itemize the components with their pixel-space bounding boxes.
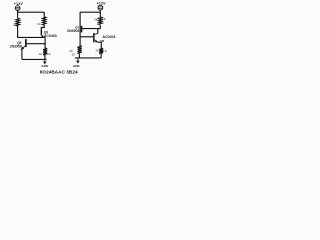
svg-text:1K: 1K — [72, 52, 77, 56]
wire node column to R3 — [44, 37, 46, 48]
wire Q8 emitter jog — [97, 42, 101, 48]
svg-text:2N3906: 2N3906 — [67, 29, 79, 33]
resistor R1 — [13, 18, 20, 26]
wire terminal to R1 — [17, 11, 19, 19]
wire riser to Q8 collector — [97, 29, 99, 34]
svg-text:1K: 1K — [103, 49, 108, 53]
wire bottom rail right — [75, 57, 101, 59]
ground GND left — [41, 59, 49, 68]
resistor R3 — [39, 48, 52, 56]
junction dot rail left — [43, 13, 45, 15]
wire terminal to R4 — [99, 10, 101, 17]
wire emitter rail horizontal — [17, 36, 45, 38]
svg-text:+12V: +12V — [97, 2, 106, 6]
wire +12V rail right — [80, 11, 100, 13]
resistor R2 — [37, 17, 46, 26]
wire R7 to rail — [100, 54, 102, 58]
wire rail drop to R2 — [43, 12, 45, 17]
wire Q5 collector to node A — [27, 43, 45, 45]
resistor R4 — [94, 17, 107, 25]
transistor Q7 — [81, 26, 85, 33]
transistor Q6 — [41, 30, 44, 38]
wire R4 to Q7 emitter line — [82, 25, 100, 29]
wire Q8 base — [80, 36, 93, 38]
wire base column — [79, 12, 81, 47]
svg-text:1K: 1K — [37, 22, 42, 26]
svg-text:2K: 2K — [47, 52, 52, 56]
wire Q8 collector diagonal — [95, 33, 98, 34]
svg-text:GND: GND — [73, 64, 81, 68]
svg-text:1K: 1K — [39, 52, 44, 56]
svg-text:+12V: +12V — [14, 2, 23, 6]
svg-text:GND: GND — [41, 64, 49, 68]
wire +12V rail left — [18, 11, 45, 13]
wire R2 to Q6 collector — [41, 25, 44, 30]
junction node A — [44, 43, 46, 45]
svg-text:AC0400: AC0400 — [44, 34, 57, 38]
resistor R6 — [78, 46, 82, 54]
wire Q5 emitter down — [21, 49, 23, 60]
transistor Q5 — [21, 39, 27, 50]
wire R1 to node — [17, 26, 19, 37]
power terminal +12V left — [14, 2, 23, 11]
transistor Q8 — [93, 33, 98, 43]
resistor R7 — [96, 48, 108, 54]
power terminal +12V right — [97, 2, 106, 11]
wire R3 to ground rail — [44, 55, 46, 59]
wire R6 to rail — [78, 54, 80, 58]
ground GND right — [73, 58, 81, 68]
svg-text:AC0401: AC0401 — [102, 35, 115, 39]
junction dot rail right — [100, 13, 102, 15]
svg-text:6O24BAAC 3B24: 6O24BAAC 3B24 — [40, 69, 78, 74]
svg-text:2N3906: 2N3906 — [10, 45, 22, 49]
wire bottom rail left — [22, 58, 47, 60]
svg-text:1K: 1K — [102, 17, 107, 21]
